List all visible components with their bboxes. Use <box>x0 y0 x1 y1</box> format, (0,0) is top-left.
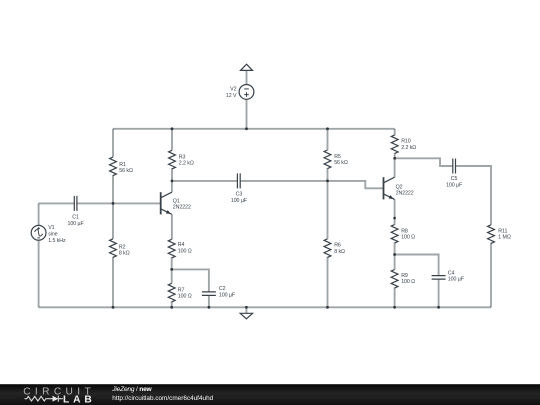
label C3 100 uF <box>231 192 248 204</box>
node wire joint emitter <box>393 217 396 220</box>
wire Q1 collector <box>171 181 173 192</box>
svg-text:C2: C2 <box>219 286 226 292</box>
svg-text:100 Ω: 100 Ω <box>178 294 192 300</box>
wire Q2 collector <box>394 158 396 177</box>
label R2 8 kOhm <box>119 244 130 256</box>
wire C2 branch <box>172 269 209 307</box>
wire top supply bus <box>113 128 395 130</box>
svg-text:100 µF: 100 µF <box>219 292 236 298</box>
svg-text:JieZeng / new: JieZeng / new <box>111 386 152 393</box>
wire R8 to R9 <box>394 243 396 270</box>
footer credit text <box>111 386 213 402</box>
svg-text:C5: C5 <box>451 176 458 182</box>
wire V2 to bus <box>246 99 248 129</box>
node junction bus C2 <box>208 306 211 309</box>
node junction bus R9 <box>393 306 396 309</box>
source V1 sine <box>31 225 46 240</box>
node junction R4 R7 C2 <box>170 268 173 271</box>
logo CircuitLab <box>23 386 92 405</box>
label R8 100 Ohm <box>401 228 415 240</box>
svg-text:56 kΩ: 56 kΩ <box>334 160 348 166</box>
node junction bus R6 <box>326 306 329 309</box>
svg-text:R9: R9 <box>401 273 408 279</box>
svg-text:R3: R3 <box>179 154 186 160</box>
node junction R8 R9 C4 <box>393 253 396 256</box>
label C5 100 uF <box>446 176 463 188</box>
wire coupling run to Q2 base <box>172 181 384 188</box>
svg-text:R5: R5 <box>334 154 341 160</box>
svg-text:R10: R10 <box>401 139 411 145</box>
svg-text:V1: V1 <box>48 225 54 231</box>
transistor Q1 <box>161 192 172 215</box>
wire R3 branch <box>171 129 173 181</box>
label C4 100 uF <box>448 270 465 282</box>
node junction R3 top bus <box>171 127 174 130</box>
svg-text:100 µF: 100 µF <box>231 198 248 204</box>
svg-text:2.2 kΩ: 2.2 kΩ <box>179 161 194 167</box>
node junction bus R7 <box>170 306 173 309</box>
svg-text:100 Ω: 100 Ω <box>401 279 415 285</box>
power flag VCC arrow <box>241 64 253 84</box>
label Q2 2N2222 <box>396 185 414 197</box>
label R6 8 kOhm <box>334 243 345 255</box>
node junction R10 / collector / C5 <box>393 157 396 160</box>
svg-text:R2: R2 <box>119 244 126 250</box>
label R1 56 kOhm <box>119 162 133 174</box>
label V2 12 V <box>226 87 237 99</box>
svg-text:100 µF: 100 µF <box>446 182 463 188</box>
wire bottom ground bus <box>39 306 491 308</box>
svg-text:56 kΩ: 56 kΩ <box>119 168 133 174</box>
resistor R5 <box>324 150 331 169</box>
label R9 100 Ohm <box>401 273 415 285</box>
wire R7 to ground bus <box>171 301 173 307</box>
wire R4 to R7 <box>171 257 173 283</box>
wire V1 stems <box>38 203 40 307</box>
node junction bus ground <box>245 306 248 309</box>
svg-text:8 kΩ: 8 kΩ <box>334 249 345 255</box>
wire R1 branch <box>112 129 114 204</box>
capacitor C4 <box>432 276 446 280</box>
svg-text:100 µF: 100 µF <box>68 221 85 227</box>
node junction collector / R3 / C3 <box>171 180 174 183</box>
resistor R9 <box>391 270 398 289</box>
svg-text:R6: R6 <box>334 243 341 249</box>
wire R6 branch <box>327 181 329 307</box>
wire R5 branch <box>327 129 329 181</box>
resistor R2 <box>110 239 117 258</box>
svg-text:2.2 kΩ: 2.2 kΩ <box>401 145 416 151</box>
transistor Q2 <box>384 177 395 200</box>
svg-text:LAB: LAB <box>63 394 92 405</box>
svg-text:12 V: 12 V <box>226 93 237 99</box>
svg-text:C1: C1 <box>72 215 79 221</box>
label R10 2.2 kOhm <box>401 139 416 151</box>
resistor R10 <box>391 129 398 159</box>
capacitor C3 <box>237 173 240 188</box>
svg-text:V2: V2 <box>230 87 236 93</box>
label C2 100 uF <box>219 286 236 298</box>
wire Q2 emitter <box>394 199 396 224</box>
resistor R11 <box>488 225 495 307</box>
svg-text:R1: R1 <box>119 162 126 168</box>
node junction input / R1 R2 <box>112 202 115 205</box>
svg-text:100 µF: 100 µF <box>448 276 465 282</box>
label C1 100 uF <box>68 215 85 227</box>
wire R2 branch <box>112 203 114 307</box>
svg-text:R4: R4 <box>178 242 185 248</box>
svg-text:8 kΩ: 8 kΩ <box>119 251 130 257</box>
svg-text:100 Ω: 100 Ω <box>178 248 192 254</box>
footer bar <box>0 384 540 405</box>
svg-text:1 MΩ: 1 MΩ <box>498 235 511 241</box>
svg-text:sine: sine <box>48 232 58 238</box>
label R5 56 kOhm <box>334 154 348 166</box>
wire C4 branch <box>395 255 439 308</box>
resistor R4 <box>168 239 175 258</box>
label R4 100 Ohm <box>178 242 192 254</box>
svg-text:2N2222: 2N2222 <box>396 190 414 196</box>
wire C5 run <box>395 158 491 225</box>
node junction R5 top bus <box>326 127 329 130</box>
resistor R8 <box>391 225 398 244</box>
capacitor C2 <box>202 292 216 296</box>
svg-text:2N2222: 2N2222 <box>173 204 191 210</box>
wire input line <box>39 202 161 204</box>
label V1 sine 1.5 kHz <box>48 225 66 244</box>
resistor R7 <box>168 283 175 302</box>
wire Q1 emitter <box>171 214 173 239</box>
label Q1 2N2222 <box>173 199 191 211</box>
node junction bus C4 <box>437 306 440 309</box>
node junction bus R2 <box>112 306 115 309</box>
svg-text:C3: C3 <box>236 192 243 198</box>
node junction top bus / V2 <box>245 127 248 130</box>
svg-text:1.5 kHz: 1.5 kHz <box>48 238 66 244</box>
svg-text:R8: R8 <box>401 228 408 234</box>
node junction R5 R6 base wire <box>326 180 329 183</box>
resistor R3 <box>169 150 176 169</box>
svg-text:http://circuitlab.com/cmer6c4u: http://circuitlab.com/cmer6c4uf4uhd <box>112 395 213 402</box>
label R11 1 MOhm <box>498 229 511 241</box>
resistor R6 <box>324 239 331 258</box>
svg-text:100 Ω: 100 Ω <box>401 235 415 241</box>
voltage source V2 <box>239 85 254 100</box>
resistor R1 <box>110 157 117 176</box>
svg-text:R11: R11 <box>498 229 507 235</box>
wire R9 to ground bus <box>394 288 396 308</box>
ground <box>240 307 252 319</box>
svg-text:R7: R7 <box>178 287 185 293</box>
label R3 2.2 kOhm <box>179 154 194 166</box>
capacitor C5 <box>453 159 456 174</box>
capacitor C1 <box>74 196 77 211</box>
label R7 100 Ohm <box>178 287 192 299</box>
